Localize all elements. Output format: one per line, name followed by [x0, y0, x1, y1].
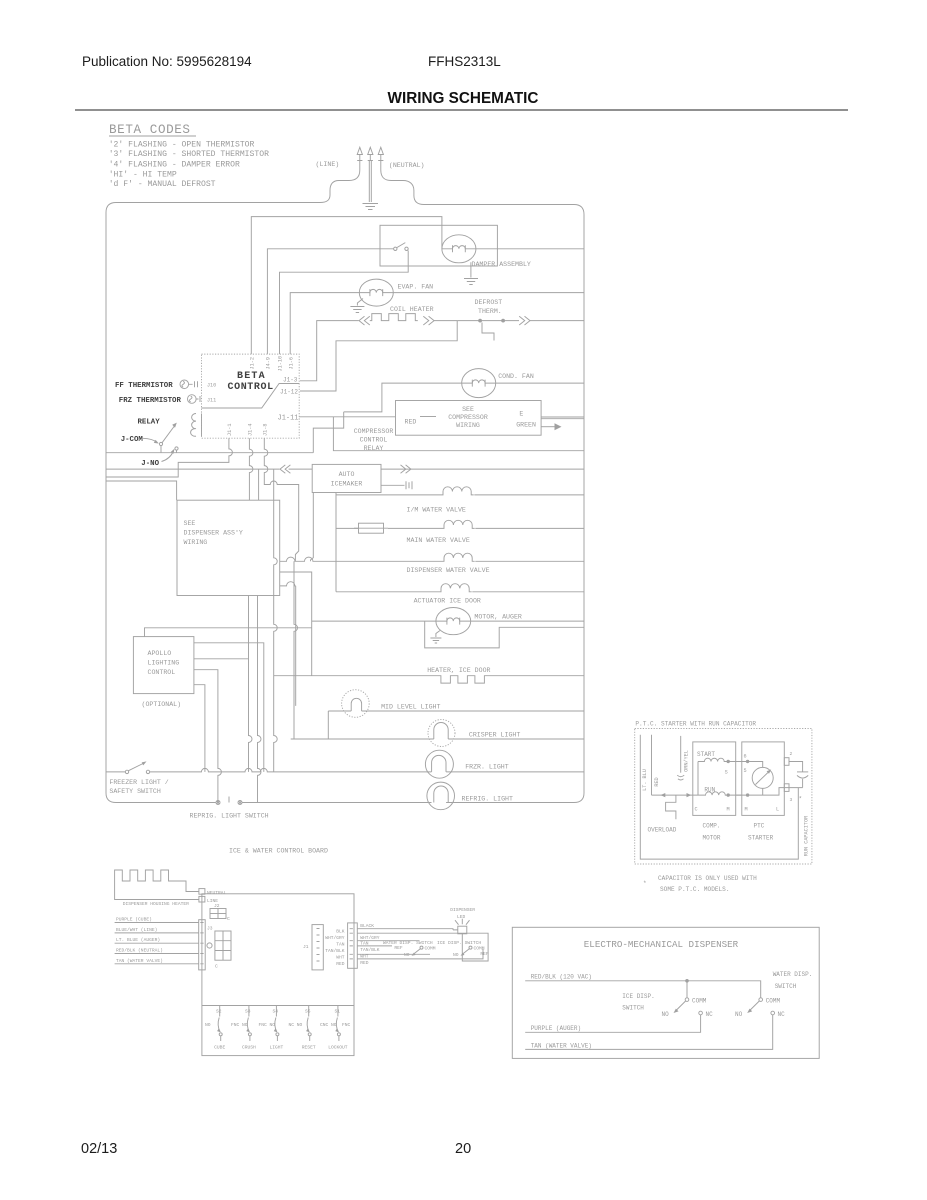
svg-text:RELAY: RELAY: [364, 445, 384, 452]
svg-text:ICE DISP. SWITCH: ICE DISP. SWITCH: [437, 940, 481, 946]
svg-text:I/M WATER VALVE: I/M WATER VALVE: [407, 507, 466, 514]
wire crisper row: [291, 738, 584, 740]
svg-text:DISPENSER: DISPENSER: [450, 907, 475, 913]
thermistor FF: [180, 380, 198, 389]
wire motor auger row left: [312, 620, 436, 622]
svg-text:STARTER: STARTER: [748, 835, 774, 842]
switch water disp: [747, 998, 774, 1015]
svg-text:J11: J11: [207, 397, 216, 403]
damper switch: [394, 243, 409, 251]
svg-text:FFHS2313L: FFHS2313L: [428, 54, 501, 69]
svg-text:20: 20: [455, 1141, 471, 1157]
damper motor: [442, 235, 476, 263]
svg-text:CUBE: CUBE: [214, 1045, 225, 1051]
svg-text:(LINE): (LINE): [316, 161, 340, 168]
beta control inner partition: [202, 384, 300, 409]
winding run: [693, 792, 742, 795]
svg-text:LIGHTING: LIGHTING: [148, 660, 180, 667]
ice water control board box: [202, 894, 354, 1056]
evap fan motor: [359, 279, 393, 306]
svg-text:BETA: BETA: [237, 371, 266, 382]
svg-text:NC: NC: [706, 1011, 714, 1018]
wire dispenser box stub y586: [280, 582, 296, 706]
wire bus from dispenser box bottom A: [249, 596, 253, 772]
wire J1-2 to damper motor: [251, 217, 442, 355]
wire J1-11 to compressor box: [299, 416, 395, 418]
svg-text:J-NO: J-NO: [141, 460, 159, 468]
terminal line: [199, 896, 205, 902]
refrig light switch contacts: [216, 797, 242, 805]
svg-text:MAIN WATER VALVE: MAIN WATER VALVE: [407, 537, 470, 544]
svg-text:J10: J10: [207, 383, 216, 389]
svg-text:BLUE/WHT (LINE): BLUE/WHT (LINE): [116, 927, 157, 933]
connector board right edge: [348, 923, 358, 968]
svg-text:6: 6: [744, 754, 747, 760]
svg-text:NO: NO: [404, 952, 410, 958]
svg-text:NO: NO: [662, 1011, 670, 1018]
wire heater to neutral terminal: [176, 881, 199, 892]
svg-text:FF THERMISTOR: FF THERMISTOR: [115, 382, 173, 390]
resistor coil heater: [370, 314, 418, 321]
svg-text:'3' FLASHING - SHORTED THERMIS: '3' FLASHING - SHORTED THERMISTOR: [109, 150, 269, 159]
svg-text:CONTROL: CONTROL: [360, 437, 388, 444]
resistor heater ice door: [274, 676, 584, 683]
motor auger: [436, 608, 471, 635]
svg-text:RED: RED: [654, 777, 660, 786]
capacitor run: [797, 772, 808, 788]
svg-text:'d F' - MANUAL DEFROST: 'd F' - MANUAL DEFROST: [109, 180, 216, 189]
wire J4-9 to damper switch: [267, 249, 393, 354]
wire lt blu vertical: [640, 735, 798, 859]
wire apollo output 4: [194, 685, 205, 772]
wire main valve row left: [336, 527, 359, 529]
cond fan motor: [462, 369, 496, 398]
wire apollo output 2: [194, 658, 249, 660]
svg-text:THERM.: THERM.: [478, 308, 502, 315]
svg-text:ICEMAKER: ICEMAKER: [331, 481, 363, 488]
relay K1 coil: [191, 414, 202, 437]
svg-text:SWITCH: SWITCH: [775, 983, 797, 990]
wire lt blue auger: [115, 942, 199, 944]
svg-text:TAN (WATER VALVE): TAN (WATER VALVE): [531, 1043, 592, 1050]
wire compressor relay step: [313, 412, 343, 453]
wire dispenser feed y478: [106, 481, 177, 500]
svg-text:COIL HEATER: COIL HEATER: [390, 306, 434, 313]
svg-text:COMM: COMM: [692, 997, 707, 1004]
svg-text:S1: S1: [335, 1009, 341, 1015]
wire E ground to neutral: [541, 417, 584, 419]
wire orn/yel with disconnect: [677, 736, 684, 780]
svg-text:'HI' - HI TEMP: 'HI' - HI TEMP: [109, 170, 177, 179]
svg-text:CAPACITOR IS ONLY USED WITH: CAPACITOR IS ONLY USED WITH: [658, 875, 757, 882]
switch S5: [306, 1006, 311, 1042]
svg-text:COMP.: COMP.: [703, 823, 721, 830]
wire icemaker feed y469: [106, 468, 312, 470]
svg-text:J3: J3: [207, 926, 213, 932]
wire red vertical: [651, 735, 653, 795]
lamp crisper light: [428, 720, 455, 747]
ground evap fan: [350, 299, 364, 313]
svg-text:L: L: [776, 807, 779, 813]
wire damper switch to J1-10: [280, 251, 409, 355]
svg-text:ACTUATOR ICE DOOR: ACTUATOR ICE DOOR: [414, 598, 481, 605]
svg-text:COMM: COMM: [766, 997, 781, 1004]
svg-text:PURPLE (CUBE): PURPLE (CUBE): [116, 917, 152, 923]
connector J1 inner: [312, 925, 323, 970]
svg-text:REF: REF: [394, 945, 403, 951]
svg-text:BLK: BLK: [336, 929, 345, 935]
wire run line with connector arrows: [652, 794, 693, 796]
wire bus mid column C: [274, 469, 278, 772]
switch ice disp small: [461, 946, 473, 956]
svg-text:SEE: SEE: [462, 406, 474, 413]
svg-text:J2: J2: [214, 903, 220, 909]
dispenser led: [455, 919, 470, 934]
wire auger shield loop: [425, 621, 584, 648]
wire purple cube: [115, 922, 199, 924]
wire wht: [357, 953, 430, 955]
leader J-NO: [162, 451, 174, 462]
svg-text:LT. BLUE (AUGER): LT. BLUE (AUGER): [116, 937, 160, 943]
wire evap fan to neutral edge: [393, 292, 584, 294]
svg-text:SWITCH: SWITCH: [622, 1005, 644, 1012]
svg-text:RESET: RESET: [302, 1045, 316, 1051]
svg-text:TAN (WATER VALVE): TAN (WATER VALVE): [116, 958, 163, 964]
svg-text:RED: RED: [405, 419, 417, 426]
wire apollo output 1: [194, 643, 264, 772]
svg-text:FRZ THERMISTOR: FRZ THERMISTOR: [119, 397, 182, 405]
svg-text:TAN/BLK: TAN/BLK: [325, 948, 345, 954]
wire J1-6 to evap fan: [290, 293, 359, 355]
svg-text:OVERLOAD: OVERLOAD: [648, 827, 677, 834]
board divider: [202, 1005, 354, 1007]
solenoid main water valve: [442, 520, 475, 528]
wire defrost to neutral edge: [530, 320, 584, 322]
svg-text:*: *: [643, 880, 647, 887]
svg-text:WATER DISP.: WATER DISP.: [773, 971, 813, 978]
wire ptc circle to run line: [762, 788, 764, 795]
svg-text:(NEUTRAL): (NEUTRAL): [389, 162, 425, 169]
thermistor FRZ: [188, 395, 201, 404]
svg-text:FNC NO: FNC NO: [231, 1022, 248, 1028]
svg-text:LED: LED: [457, 914, 466, 920]
switch S4: [274, 1006, 279, 1042]
wire start to run join: [697, 762, 699, 796]
svg-text:CRUSH: CRUSH: [242, 1045, 256, 1051]
svg-text:REFRIG. LIGHT: REFRIG. LIGHT: [462, 796, 513, 803]
plug prong line: [357, 147, 362, 160]
apollo lighting control box: [133, 637, 194, 694]
wire blue/wht line: [115, 932, 199, 934]
svg-text:NO: NO: [735, 1011, 743, 1018]
svg-text:M: M: [745, 807, 748, 813]
connector chevrons right of coil heater: [423, 316, 434, 325]
svg-text:P.T.C. STARTER WITH RUN CAPACI: P.T.C. STARTER WITH RUN CAPACITOR: [635, 721, 756, 728]
wire dispenser box second pin: [258, 469, 260, 500]
terminal tab top right: [784, 758, 789, 766]
wire apollo output 3: [194, 670, 222, 803]
wire icemaker box bottom right vertical: [311, 493, 314, 562]
resistor dispenser housing heater: [115, 870, 176, 881]
svg-text:(OPTIONAL): (OPTIONAL): [142, 701, 182, 708]
switch S2: [217, 1006, 222, 1042]
wire dispenser box stub y572: [280, 572, 312, 676]
wire tan to water disp switch: [357, 940, 419, 942]
wire icemaker bottom bus: [335, 493, 337, 592]
wire ptc to capacitor top: [789, 762, 803, 772]
icemaker mold heater connector: [381, 481, 412, 489]
auto icemaker box: [312, 464, 381, 492]
wire pin J1-4 down with hops: [249, 438, 253, 500]
svg-text:DISPENSER HOUSING HEATER: DISPENSER HOUSING HEATER: [123, 901, 189, 907]
svg-text:E: E: [519, 410, 523, 417]
wire start line into ptc: [736, 762, 763, 768]
svg-text:NO: NO: [453, 952, 459, 958]
connector chevrons left of coil heater: [359, 316, 370, 325]
svg-text:CRISPER LIGHT: CRISPER LIGHT: [469, 732, 520, 739]
solenoid actuator ice door: [439, 584, 472, 592]
svg-text:DAMPER ASSEMBLY: DAMPER ASSEMBLY: [472, 261, 531, 268]
svg-text:WIRING: WIRING: [184, 539, 208, 546]
wire cond fan left tap: [344, 383, 462, 412]
svg-text:J1-4: J1-4: [248, 424, 254, 436]
svg-text:COND. FAN: COND. FAN: [498, 373, 534, 380]
fuse water valve: [354, 523, 388, 533]
wire dispenser valve row: [280, 557, 584, 561]
wire compressor return y450: [333, 417, 584, 451]
wire actuator row: [336, 591, 584, 593]
svg-text:GREEN: GREEN: [516, 422, 536, 429]
svg-text:RED: RED: [360, 960, 369, 966]
relay switch arm: [159, 423, 178, 451]
junction dot red/blk: [685, 979, 689, 983]
wire heater to defrost therm: [300, 321, 457, 391]
ptc section outer box: [635, 729, 812, 865]
svg-text:DISPENSER ASS'Y: DISPENSER ASS'Y: [184, 530, 243, 537]
svg-text:S3: S3: [245, 1009, 251, 1015]
svg-text:J1-10: J1-10: [278, 356, 284, 372]
wire motor auger to neutral: [471, 620, 584, 622]
svg-text:LOCKOUT: LOCKOUT: [328, 1045, 348, 1051]
svg-text:NO: NO: [205, 1022, 211, 1028]
svg-text:J1-6: J1-6: [288, 357, 294, 369]
wire frzr light row: [150, 768, 584, 771]
svg-text:J1-2: J1-2: [250, 357, 256, 369]
svg-text:EVAP. FAN: EVAP. FAN: [398, 284, 434, 291]
svg-text:COMM: COMM: [425, 946, 436, 952]
wire line bus y452: [106, 452, 313, 454]
svg-text:TAN/BLK: TAN/BLK: [360, 947, 380, 953]
svg-text:S2: S2: [216, 1009, 222, 1015]
wire black to led: [357, 929, 458, 930]
wire tan water valve: [525, 1015, 773, 1050]
wire plug center ground lead: [369, 161, 371, 203]
switch S1: [335, 1006, 340, 1042]
switch ice disp: [674, 998, 703, 1015]
svg-text:LINE: LINE: [207, 898, 218, 904]
wire tan water valve: [115, 963, 199, 965]
svg-text:APOLLO: APOLLO: [148, 650, 172, 657]
wire cond fan to neutral edge: [496, 382, 584, 384]
ptc starter box: [742, 742, 785, 816]
svg-text:'4' FLASHING - DAMPER ERROR: '4' FLASHING - DAMPER ERROR: [109, 161, 240, 170]
svg-text:J1-11: J1-11: [278, 415, 299, 423]
svg-text:FNC: FNC: [342, 1022, 351, 1028]
svg-text:MID LEVEL LIGHT: MID LEVEL LIGHT: [381, 704, 440, 711]
wire tan/blk: [357, 945, 392, 947]
wire relay common to line bus: [160, 446, 162, 453]
svg-text:BLACK: BLACK: [360, 923, 374, 929]
defrost thermostat: [457, 319, 519, 341]
svg-text:PURPLE (AUGER): PURPLE (AUGER): [531, 1025, 581, 1032]
svg-text:J1-3: J1-3: [283, 377, 298, 384]
svg-text:C: C: [215, 964, 218, 970]
switch S3: [246, 1006, 251, 1042]
svg-text:MOTOR: MOTOR: [703, 835, 721, 842]
winding start: [698, 758, 742, 761]
connector J3 grid: [207, 931, 231, 960]
svg-text:*: *: [799, 796, 803, 803]
svg-text:HEATER, ICE DOOR: HEATER, ICE DOOR: [427, 667, 490, 674]
svg-text:AUTO: AUTO: [339, 471, 355, 478]
svg-text:WHT/GRY: WHT/GRY: [325, 935, 345, 941]
connector chevrons defrost to neutral: [519, 316, 530, 325]
main box outline right edge and top-right: [424, 205, 584, 803]
svg-text:S4: S4: [273, 1009, 279, 1015]
svg-text:WIRING SCHEMATIC: WIRING SCHEMATIC: [388, 90, 539, 107]
svg-text:FREEZER LIGHT /: FREEZER LIGHT /: [109, 779, 168, 786]
see dispenser assy wiring box: [177, 500, 280, 595]
svg-text:START: START: [697, 751, 715, 758]
svg-text:DISPENSER WATER VALVE: DISPENSER WATER VALVE: [407, 567, 490, 574]
svg-text:2: 2: [790, 751, 793, 757]
svg-text:NEUTRAL: NEUTRAL: [207, 890, 227, 896]
solenoid I/M water valve: [441, 487, 474, 495]
wire pin J1-1 down: [106, 438, 232, 477]
wire damper motor to neutral edge: [476, 248, 584, 250]
svg-text:REPRIG. LIGHT SWITCH: REPRIG. LIGHT SWITCH: [190, 813, 269, 820]
svg-text:SEE: SEE: [184, 520, 196, 527]
main box outline left edge and top-left: [106, 203, 320, 803]
svg-text:J1-8: J1-8: [263, 424, 269, 436]
switch water disp small: [412, 946, 424, 956]
wire heater row left with J1-3 tap: [300, 321, 359, 381]
svg-text:'2' FLASHING - OPEN THERMISTOR: '2' FLASHING - OPEN THERMISTOR: [109, 141, 255, 150]
wire main valve row: [388, 527, 584, 529]
svg-text:RUN CAPACITOR: RUN CAPACITOR: [804, 816, 810, 856]
svg-text:RELAY: RELAY: [138, 418, 161, 426]
junction dots start line: [727, 760, 730, 763]
svg-text:ORN/YEL: ORN/YEL: [683, 750, 689, 772]
svg-text:ICE & WATER CONTROL BOARD: ICE & WATER CONTROL BOARD: [229, 848, 328, 855]
svg-text:COMPRESSOR: COMPRESSOR: [448, 414, 488, 421]
ground damper: [464, 262, 478, 284]
svg-text:TAN: TAN: [336, 942, 345, 948]
plug prong neutral: [378, 147, 383, 160]
svg-text:J1: J1: [303, 944, 309, 950]
overload protector: [666, 795, 676, 819]
wire plug line lead: [320, 161, 360, 203]
damper assembly box: [380, 225, 497, 266]
wire bus from dispenser box bottom B: [258, 596, 262, 803]
svg-text:LIGHT: LIGHT: [270, 1045, 284, 1051]
svg-text:CNC NO: CNC NO: [320, 1022, 337, 1028]
wire icemaker to neutral with chevrons: [381, 468, 584, 470]
terminal neutral: [199, 889, 205, 895]
electro-mechanical dispenser box: [512, 927, 819, 1058]
ground motor auger: [430, 631, 441, 644]
svg-text:J1-12: J1-12: [280, 389, 298, 396]
svg-text:S5: S5: [305, 1009, 311, 1015]
svg-text:WIRING: WIRING: [456, 422, 480, 429]
solenoid dispenser water valve: [442, 553, 475, 561]
svg-text:NC: NC: [778, 1011, 786, 1018]
svg-text:C: C: [227, 916, 230, 922]
svg-text:CONTROL: CONTROL: [228, 382, 274, 393]
svg-text:J-COM: J-COM: [121, 436, 144, 444]
lamp refrig light: [427, 782, 455, 810]
svg-text:WHT: WHT: [336, 955, 345, 961]
svg-text:RED/BLK (120 VAC): RED/BLK (120 VAC): [531, 974, 592, 981]
freezer light safety switch: [106, 761, 150, 773]
svg-text:SOME P.T.C. MODELS.: SOME P.T.C. MODELS.: [660, 886, 729, 893]
lamp frzr light: [425, 750, 453, 778]
wire red/blk neutral: [115, 953, 199, 955]
svg-text:MOTOR, AUGER: MOTOR, AUGER: [474, 614, 522, 621]
svg-text:J1-1: J1-1: [227, 424, 233, 436]
svg-text:DEFROST: DEFROST: [475, 299, 503, 306]
wire apollo top feed: [145, 628, 312, 637]
wire plug neutral lead: [381, 161, 424, 205]
svg-text:M: M: [727, 807, 730, 813]
svg-text:RED: RED: [336, 961, 345, 967]
svg-text:Publication No: 5995628194: Publication No: 5995628194: [82, 54, 252, 69]
wire I/M valve row: [336, 494, 584, 496]
svg-text:3: 3: [790, 797, 793, 803]
wire bus mid column D: [294, 561, 298, 739]
leader J-COM: [143, 438, 157, 442]
wire relay NO contact down: [176, 450, 178, 453]
header rule: [75, 109, 848, 111]
svg-text:LT. BLU: LT. BLU: [642, 769, 648, 791]
wire purple auger: [525, 1015, 700, 1033]
connector chevrons icemaker feed: [280, 465, 290, 473]
wire wht/gry: [357, 933, 488, 961]
svg-text:ICE DISP.: ICE DISP.: [622, 993, 654, 1000]
svg-text:RED/BLK (NEUTRAL): RED/BLK (NEUTRAL): [116, 948, 163, 954]
svg-text:COMPRESSOR: COMPRESSOR: [354, 428, 394, 435]
svg-text:C: C: [695, 807, 698, 813]
svg-text:FRZR. LIGHT: FRZR. LIGHT: [465, 764, 509, 771]
wire red stub: [420, 416, 436, 418]
see compressor wiring box: [396, 401, 542, 436]
svg-text:BETA CODES: BETA CODES: [109, 123, 191, 137]
connector J2: [210, 909, 226, 919]
svg-text:ELECTRO-MECHANICAL DISPENSER: ELECTRO-MECHANICAL DISPENSER: [584, 939, 739, 950]
svg-text:S: S: [725, 770, 728, 776]
wire run line through ptc: [736, 788, 803, 796]
main box bottom edge segments with refrig light switch gap: [116, 802, 574, 804]
terminal tab bottom right: [784, 784, 789, 792]
wire to ice disp comm: [686, 981, 688, 998]
wire heater line side: [115, 881, 199, 900]
svg-text:02/13: 02/13: [81, 1141, 117, 1157]
svg-text:SAFETY SWITCH: SAFETY SWITCH: [109, 788, 160, 795]
connector board left edge: [199, 920, 206, 970]
svg-text:J4-9: J4-9: [266, 357, 272, 369]
svg-text:5: 5: [744, 768, 747, 774]
svg-text:NC NO: NC NO: [289, 1022, 303, 1028]
